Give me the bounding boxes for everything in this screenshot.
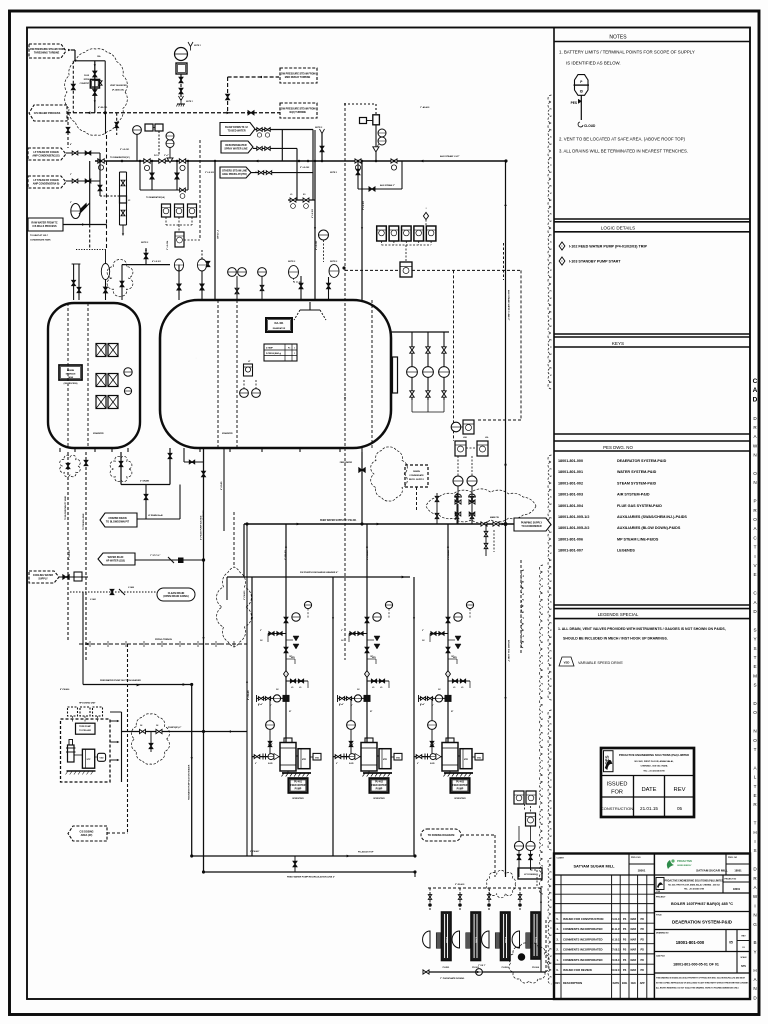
down arrows on vessel feeds bbox=[314, 227, 316, 230]
main steam header y158 bbox=[95, 160, 506, 162]
svg-text:CLIENT: CLIENT bbox=[557, 858, 565, 860]
flag lp steam med reboiler 2 bbox=[280, 103, 317, 118]
LI boxes pair bbox=[455, 441, 466, 456]
svg-text:18001-801-004: 18001-801-004 bbox=[558, 504, 584, 508]
svg-text:DOSING: DOSING bbox=[445, 937, 447, 944]
svg-text:30.11.15: 30.11.15 bbox=[611, 928, 621, 931]
svg-text:B: B bbox=[753, 940, 756, 945]
PRV side valve bbox=[95, 79, 101, 81]
svg-text:N: N bbox=[753, 913, 756, 918]
clean drain dotted line bbox=[70, 591, 157, 593]
svg-text:MAR: MAR bbox=[630, 928, 636, 931]
svg-text:TO DEAERATOR(1A): TO DEAERATOR(1A) bbox=[146, 196, 165, 199]
svg-text:PUMP: PUMP bbox=[376, 789, 383, 791]
pump train PU-402 suction riser bbox=[332, 577, 334, 856]
svg-text:COMMENTS INCORPORATED: COMMENTS INCORPORATED bbox=[563, 927, 603, 931]
svg-text:3"-LS-105: 3"-LS-105 bbox=[205, 172, 214, 174]
title block right rows bbox=[654, 874, 750, 876]
svg-text:TITLE: TITLE bbox=[656, 915, 662, 917]
pump PU-403 motor bbox=[458, 755, 460, 757]
svg-text:18001: 18001 bbox=[734, 869, 742, 873]
svg-text:HIGH PRESS AT(2TO): HIGH PRESS AT(2TO) bbox=[222, 173, 247, 176]
stadium clean drain bbox=[157, 588, 195, 601]
mid horizontal y264 bbox=[122, 264, 170, 266]
dosing unit 4 tank bbox=[531, 912, 541, 959]
svg-text:PU-402: PU-402 bbox=[375, 781, 384, 784]
svg-text:RECR. SUPPLY: RECR. SUPPLY bbox=[409, 479, 425, 481]
svg-text:PES DWG. NO: PES DWG. NO bbox=[603, 445, 633, 450]
dashed interlock across to LIC bbox=[412, 269, 521, 271]
LS square below bbox=[178, 225, 180, 232]
svg-text:HP DOSING UNIT: HP DOSING UNIT bbox=[79, 703, 96, 705]
dosing unit feed drops bbox=[429, 888, 431, 910]
dashed riser x121 from flag2 bbox=[65, 112, 67, 120]
vertical x68 blowdown dashed bbox=[67, 452, 69, 640]
dosing unit 1 tank bbox=[442, 912, 452, 961]
pump train PU-403 pump inlet line bbox=[414, 756, 442, 758]
logic interlock I-102 bbox=[559, 242, 565, 250]
main discharge header y524 bbox=[244, 523, 514, 525]
second bottom header y872 bbox=[204, 871, 416, 873]
vessel left internal dashed lines bbox=[67, 303, 69, 448]
svg-text:REV: REV bbox=[674, 787, 686, 793]
svg-text:I: I bbox=[754, 839, 755, 844]
keys header box bbox=[554, 333, 750, 335]
svg-text:2": 2" bbox=[260, 630, 262, 632]
svg-text:SATYAM SUGAR MILL: SATYAM SUGAR MILL bbox=[573, 864, 615, 869]
pump PU-401 base plate bbox=[282, 772, 311, 774]
svg-text:18001-801-007: 18001-801-007 bbox=[558, 549, 583, 553]
svg-text:PU-504: PU-504 bbox=[532, 966, 540, 969]
svg-text:V-1400: V-1400 bbox=[128, 586, 134, 589]
svg-text:GREEN ENERGY: GREEN ENERGY bbox=[677, 865, 692, 867]
svg-text:TANK: TANK bbox=[68, 376, 74, 379]
svg-text:TO ECONOMIZER: TO ECONOMIZER bbox=[521, 525, 541, 528]
vessel left demin storage tank bbox=[48, 303, 140, 448]
svg-text:BOILER FILL LINE 2": BOILER FILL LINE 2" bbox=[507, 640, 509, 662]
svg-text:STEAM SYSTEM-P&ID: STEAM SYSTEM-P&ID bbox=[617, 481, 656, 485]
svg-text:6"-FW-400: 6"-FW-400 bbox=[243, 591, 246, 600]
pump PU-401 vsd tag bbox=[310, 756, 313, 758]
dosing unit 1 pump bbox=[423, 931, 430, 948]
LIC square and circle bbox=[451, 422, 461, 432]
svg-text:2"x1": 2"x1" bbox=[164, 155, 169, 157]
svg-text:SHOULD BE INCLUDED IN MECH / I: SHOULD BE INCLUDED IN MECH / INST HOOK U… bbox=[563, 637, 668, 641]
svg-text:T: T bbox=[754, 821, 757, 826]
svg-text:MTR: MTR bbox=[464, 759, 469, 761]
transfer pump label box bbox=[76, 723, 96, 734]
svg-text:16.10.15: 16.10.15 bbox=[611, 938, 621, 941]
three square instruments row bbox=[162, 204, 171, 217]
svg-text:1. ALL DRAIN, VENT VALVES PROV: 1. ALL DRAIN, VENT VALVES PROVIDED WITH … bbox=[558, 627, 726, 631]
svg-text:W: W bbox=[753, 894, 758, 899]
left vertical x203 DA suction bbox=[203, 448, 205, 872]
vertical feed x315 to vessel bbox=[314, 161, 316, 300]
arrowheads on main headers bbox=[255, 160, 258, 163]
svg-text:REV: REV bbox=[555, 983, 560, 985]
pump building vsd bbox=[95, 756, 98, 758]
dark valve on dashed header bbox=[248, 111, 254, 115]
transfer line drop valve bbox=[150, 732, 152, 753]
ellipse pump symbol left bbox=[71, 204, 81, 219]
svg-text:FEED WATER: FEED WATER bbox=[340, 461, 353, 464]
svg-text:NO.18/2, FIRST FLOOR, ANNA SAL: NO.18/2, FIRST FLOOR, ANNA SALAI, CHENNA… bbox=[668, 884, 719, 887]
LV instruments pair bbox=[174, 259, 183, 271]
svg-text:W 1/2": W 1/2" bbox=[154, 155, 160, 157]
vent line with note2 bbox=[321, 133, 323, 161]
svg-text:18001-801-003: 18001-801-003 bbox=[558, 493, 583, 497]
svg-text:2"-LS-101: 2"-LS-101 bbox=[120, 149, 130, 151]
svg-text:DA-401: DA-401 bbox=[275, 321, 284, 325]
cooling water valve bbox=[59, 576, 88, 578]
pump PU-402 vsd tag bbox=[391, 756, 394, 758]
svg-text:PU-501: PU-501 bbox=[443, 967, 451, 969]
svg-text:6"-FW-403: 6"-FW-403 bbox=[366, 549, 369, 560]
svg-text:T: T bbox=[754, 784, 757, 789]
pump train PU-402 left branch bbox=[349, 633, 367, 635]
pump building base bbox=[67, 770, 96, 772]
flag to drain collection bbox=[100, 513, 137, 527]
svg-text:BOILER 160TPH/87 BAR(G) 485 °C: BOILER 160TPH/87 BAR(G) 485 °C bbox=[671, 902, 733, 906]
svg-text:PS: PS bbox=[623, 918, 627, 921]
svg-text:V-1401: V-1401 bbox=[90, 598, 96, 601]
svg-text:NOTE 1: NOTE 1 bbox=[194, 45, 201, 47]
svg-text:DOSING: DOSING bbox=[504, 937, 506, 944]
step from blowdown flag B bbox=[253, 147, 297, 149]
svg-text:T: T bbox=[754, 655, 757, 660]
svg-text:1: 1 bbox=[294, 348, 295, 350]
vertical x106 dashed bbox=[106, 135, 108, 225]
flag lp steam cogen 2 bbox=[28, 176, 66, 188]
pump train PU-403 strainer warmup line bbox=[419, 697, 449, 699]
dosing dark junction bbox=[518, 954, 524, 960]
svg-text:TO HEAT AT 105 C: TO HEAT AT 105 C bbox=[30, 234, 49, 237]
stubs below header bbox=[485, 524, 487, 556]
vessel DA-401 internal circles bbox=[240, 389, 249, 398]
svg-text:IS IDENTIFIED AS BELOW.: IS IDENTIFIED AS BELOW. bbox=[566, 61, 621, 66]
issued-for table columns bbox=[633, 776, 635, 818]
svg-text:1" ST 2"x1": 1" ST 2"x1" bbox=[150, 555, 160, 557]
svg-text:MAIN FW: MAIN FW bbox=[490, 516, 499, 519]
pump PU-402 body bbox=[361, 743, 377, 772]
svg-text:4"-LS-103: 4"-LS-103 bbox=[315, 240, 318, 250]
svg-text:NOTE 2: NOTE 2 bbox=[315, 127, 323, 129]
line y577 collector bbox=[227, 576, 410, 578]
svg-text:W: W bbox=[753, 443, 758, 448]
svg-text:PES: PES bbox=[605, 755, 610, 764]
svg-text:DOSING: DOSING bbox=[475, 937, 477, 944]
vertical x86 dashed bbox=[85, 452, 87, 660]
header corner at x244 bbox=[243, 524, 245, 577]
line from others steam flag bbox=[251, 172, 313, 174]
pump train PU-403 left branch bbox=[430, 633, 448, 635]
svg-text:PES: PES bbox=[571, 101, 577, 105]
flag to dosing diagram bbox=[421, 829, 461, 841]
svg-text:S: S bbox=[753, 646, 756, 651]
svg-text:8"x6": 8"x6" bbox=[420, 704, 425, 706]
svg-text:4"-ES-101: 4"-ES-101 bbox=[98, 106, 108, 109]
svg-text:VSD: VSD bbox=[315, 757, 320, 759]
pump train PU-401 discharge valves top bbox=[284, 617, 288, 623]
svg-text:18001-801-005-2/2: 18001-801-005-2/2 bbox=[558, 526, 589, 530]
svg-text:18001: 18001 bbox=[733, 887, 741, 891]
svg-text:E: E bbox=[753, 793, 756, 798]
cloud top header bbox=[74, 60, 105, 62]
svg-text:21.01.15: 21.01.15 bbox=[611, 918, 621, 921]
squares row x379-433 bbox=[377, 226, 387, 241]
svg-text:TEL: +91 44 2345 6789: TEL: +91 44 2345 6789 bbox=[684, 888, 704, 891]
svg-text:DPRS: DPRS bbox=[84, 79, 90, 81]
svg-text:VSD: VSD bbox=[564, 661, 570, 665]
flag drain 2 bbox=[98, 553, 135, 565]
pump building vertical pump bbox=[68, 745, 75, 762]
legends VSD symbol bbox=[559, 657, 574, 666]
svg-text:H: H bbox=[753, 830, 756, 835]
svg-text:FEEDWATER PUMP SUCTION HEADER: FEEDWATER PUMP SUCTION HEADER bbox=[188, 764, 191, 800]
svg-text:PUMP: PUMP bbox=[295, 789, 302, 791]
vessel top group B bbox=[329, 265, 339, 278]
svg-text:COMMENTS INCORPORATED: COMMENTS INCORPORATED bbox=[563, 958, 603, 962]
svg-text:AUXILIARIES (SWAS/CHEM.INJ.)-P: AUXILIARIES (SWAS/CHEM.INJ.)-P&IDS bbox=[617, 515, 687, 519]
flag others steam turbine bbox=[220, 167, 251, 178]
extra bottom connection lines bbox=[414, 835, 416, 856]
cloud right leg bbox=[104, 61, 106, 113]
pump train PU-403 discharge valves top bbox=[446, 617, 450, 623]
svg-text:05: 05 bbox=[729, 941, 733, 945]
pump train PU-401 left branch bbox=[268, 633, 286, 635]
pump PU-402 name box bbox=[370, 778, 389, 793]
raw water line from flag bbox=[63, 224, 107, 226]
flag cooling water supply bbox=[29, 571, 59, 583]
svg-text:3"-LS-104: 3"-LS-104 bbox=[166, 240, 169, 250]
svg-text:1: 1 bbox=[294, 353, 295, 355]
flag to dosing area bbox=[68, 826, 107, 841]
svg-text:PROACTIVE ENGINEERING SOLUTION: PROACTIVE ENGINEERING SOLUTIONS (P&I) LI… bbox=[665, 880, 724, 883]
svg-text:ALL RIGHTS RESERVED. DO NOT SC: ALL RIGHTS RESERVED. DO NOT SCALE THIS D… bbox=[656, 987, 740, 990]
svg-text:4"-LS-102: 4"-LS-102 bbox=[311, 209, 314, 218]
dashed line from logic box to pump trains bbox=[344, 103, 346, 268]
pump train PU-401 suction riser bbox=[251, 577, 253, 856]
LV circles below bbox=[453, 476, 463, 486]
svg-text:PROJ. NO: PROJ. NO bbox=[728, 857, 738, 859]
svg-text:LEGENDS: LEGENDS bbox=[617, 549, 635, 553]
svg-text:1" DS 1": 1" DS 1" bbox=[478, 965, 486, 967]
svg-text:C/S DEAER PROCESS: C/S DEAER PROCESS bbox=[34, 112, 61, 115]
pump PU-403 name box bbox=[451, 778, 470, 793]
svg-text:4#(2) TURBINE: 4#(2) TURBINE bbox=[289, 111, 306, 114]
pump train PU-403 right branch recirc bbox=[448, 680, 470, 682]
svg-text:DEAERATOR: DEAERATOR bbox=[273, 327, 286, 330]
valves on header before flag bbox=[481, 522, 487, 526]
svg-text:SATYAM SUGAR MILL: SATYAM SUGAR MILL bbox=[696, 869, 728, 873]
pump train PU-403 discharge column bbox=[447, 524, 449, 742]
svg-text:CAD FILE: CAD FILE bbox=[656, 955, 665, 958]
aux control valve body bbox=[373, 147, 379, 152]
PRV station in cloud bbox=[94, 61, 96, 113]
svg-text:PD: PD bbox=[640, 918, 644, 921]
svg-text:L: L bbox=[754, 775, 757, 780]
svg-text:AIR SYSTEM-P&ID: AIR SYSTEM-P&ID bbox=[617, 493, 650, 497]
vessel DA-401 spray tee bbox=[300, 309, 320, 311]
dashed bracket top bbox=[344, 103, 376, 105]
svg-text:COMMENTS INCORPORATED: COMMENTS INCORPORATED bbox=[563, 948, 603, 952]
svg-text:18001-801-000: 18001-801-000 bbox=[558, 459, 583, 463]
pump train PU-403 NRV stack bbox=[455, 636, 461, 649]
pump train PU-402 discharge column bbox=[366, 524, 368, 742]
svg-text:3": 3" bbox=[70, 202, 72, 204]
svg-text:MP STEAM LINE-P&IDS: MP STEAM LINE-P&IDS bbox=[617, 537, 659, 541]
svg-text:TO DOSING DIAGRAM: TO DOSING DIAGRAM bbox=[428, 834, 455, 837]
svg-text:TO BLOWDOWN PIT: TO BLOWDOWN PIT bbox=[106, 520, 130, 523]
PC circle pair aux bbox=[378, 129, 386, 137]
instrument stack valves bbox=[517, 854, 521, 859]
svg-text:TO DEAERATOR(1C): TO DEAERATOR(1C) bbox=[110, 156, 130, 159]
svg-text:MED REBLR TURBINE: MED REBLR TURBINE bbox=[285, 76, 311, 79]
svg-text:COMMENTS INCORPORATED: COMMENTS INCORPORATED bbox=[563, 937, 603, 941]
vessel left instrument circles bbox=[124, 368, 132, 376]
tie valve between headers bbox=[294, 856, 296, 872]
revision table grid bbox=[560, 875, 562, 999]
svg-text:TEL: +91 44 2345 6789: TEL: +91 44 2345 6789 bbox=[643, 770, 665, 773]
svg-text:V2: V2 bbox=[128, 200, 130, 202]
svg-text:Y: Y bbox=[753, 637, 756, 642]
svg-text:(ON PROCESS): (ON PROCESS) bbox=[64, 383, 78, 385]
header manifold bowties bbox=[144, 159, 150, 163]
discharge header control valves bbox=[435, 496, 439, 501]
flag blow down tank 2 bbox=[221, 141, 253, 153]
svg-text:STANDPIPE: STANDPIPE bbox=[222, 432, 233, 435]
svg-text:PD: PD bbox=[640, 928, 644, 931]
svg-text:PROJECT: PROJECT bbox=[656, 897, 666, 899]
pipe dashed header y112 bbox=[67, 112, 280, 114]
vessel drain x170 bbox=[169, 448, 171, 485]
svg-text:PU-401: PU-401 bbox=[294, 781, 303, 784]
svg-text:H: H bbox=[753, 968, 756, 973]
svg-text:NOTE 2: NOTE 2 bbox=[288, 261, 296, 263]
svg-text:5.: 5. bbox=[556, 917, 559, 921]
svg-text:O: O bbox=[753, 738, 757, 743]
svg-text:SPRAY WATER LINE: SPRAY WATER LINE bbox=[224, 147, 248, 150]
level gauge on vessel right bbox=[393, 357, 398, 393]
svg-text:C: C bbox=[753, 378, 758, 385]
svg-text:2"-FW-407: 2"-FW-407 bbox=[250, 850, 259, 853]
svg-text:2"-CW-401: 2"-CW-401 bbox=[68, 549, 71, 560]
pump train PU-403 suction riser bbox=[413, 577, 415, 856]
dosing unit 2 pump bbox=[452, 931, 459, 948]
left riser from flags x100 bbox=[99, 153, 101, 161]
svg-text:PUMP2(2F)-2": PUMP2(2F)-2" bbox=[168, 727, 181, 729]
dashed box around aux manifold bbox=[195, 357, 197, 359]
svg-text:NOTE 2: NOTE 2 bbox=[330, 261, 338, 263]
svg-text:PROJ. NO: PROJ. NO bbox=[631, 857, 641, 859]
svg-text:AUX.STEAM 1-1/2": AUX.STEAM 1-1/2" bbox=[440, 155, 460, 158]
pump PU-403 vsd tag bbox=[472, 756, 475, 758]
svg-text:FLUE GAS SYSTEM-P&ID: FLUE GAS SYSTEM-P&ID bbox=[617, 504, 662, 508]
svg-text:PROJECT NO: PROJECT NO bbox=[725, 879, 737, 881]
extra ticks on piping trench bbox=[89, 641, 91, 647]
svg-text:2"-LS-103: 2"-LS-103 bbox=[363, 201, 365, 210]
extra valves on left flags lines bbox=[66, 127, 70, 132]
svg-text:PROACTIVE ENGINEERING SOLUTION: PROACTIVE ENGINEERING SOLUTIONS (P&I) LI… bbox=[619, 753, 689, 757]
svg-text:2"x3": 2"x3" bbox=[255, 172, 260, 174]
pump train PU-403 logic diamond bbox=[446, 671, 451, 678]
svg-text:Y: Y bbox=[753, 949, 756, 954]
svg-text:CONDENSATE: CONDENSATE bbox=[409, 474, 424, 477]
svg-text:AREA (2F): AREA (2F) bbox=[81, 834, 93, 837]
svg-text:I-102 FEED WATER PUMP (P4-01/: I-102 FEED WATER PUMP (P4-01/02/03) TRIP bbox=[569, 245, 647, 249]
dosing unit 2 tank bbox=[471, 912, 481, 961]
svg-text:1.: 1. bbox=[556, 958, 559, 962]
dosing unit 4 pump bbox=[512, 931, 519, 948]
short dashed parallel x503 bbox=[503, 243, 505, 280]
flag pumping supply to economizer bbox=[514, 518, 551, 531]
header right of vessel bbox=[391, 331, 449, 333]
svg-text:DOSING: DOSING bbox=[535, 937, 537, 944]
svg-text:AUXILIARIES (BLOW DOWN)-P&IDS: AUXILIARIES (BLOW DOWN)-P&IDS bbox=[617, 526, 681, 530]
pump train PU-403 small tee tags bbox=[448, 658, 457, 660]
vessel top group A bbox=[289, 266, 299, 279]
bypass line to vessel y200 bbox=[288, 199, 315, 201]
svg-text:LOGIC DETAILS: LOGIC DETAILS bbox=[601, 226, 635, 231]
right panel divider bbox=[553, 28, 555, 1000]
vertical dashed x234 bbox=[233, 512, 235, 567]
pump train PU-401 discharge column bbox=[285, 524, 287, 742]
extra circle pair above vessel x262 bbox=[258, 268, 267, 277]
svg-text:4"-DR-401: 4"-DR-401 bbox=[202, 509, 205, 520]
instrument stack mid box bbox=[526, 813, 536, 826]
recirculation bottom header bbox=[192, 855, 415, 857]
pump building roof boxes bbox=[68, 707, 78, 716]
svg-text:24.06.15: 24.06.15 bbox=[611, 959, 621, 962]
svg-text:FEED WATER: FEED WATER bbox=[372, 784, 387, 787]
pump building dashed enclosure bbox=[61, 719, 111, 782]
svg-text:NOTE 3: NOTE 3 bbox=[330, 172, 337, 174]
vertical main x506 bbox=[505, 161, 507, 877]
svg-text:(OPEN DRAIN GOING): (OPEN DRAIN GOING) bbox=[163, 595, 188, 598]
svg-text:3. ALL DRAINS WILL BE TERMINAT: 3. ALL DRAINS WILL BE TERMINATED IN NEAR… bbox=[559, 149, 688, 154]
dashed interlock drop to LSH bbox=[453, 270, 455, 441]
HV instrument group bbox=[133, 126, 142, 135]
svg-text:TO TRENCH 40NB: TO TRENCH 40NB bbox=[82, 513, 85, 530]
svg-text:4.: 4. bbox=[556, 927, 559, 931]
svg-text:AUX STEAM SUPPLY LINE 2": AUX STEAM SUPPLY LINE 2" bbox=[507, 290, 510, 320]
dosing unit 3 pump bbox=[482, 931, 489, 948]
svg-text:PS: PS bbox=[623, 969, 627, 972]
pump train PU-402 discharge valves top bbox=[365, 617, 369, 623]
svg-text:PS: PS bbox=[623, 959, 627, 962]
svg-text:LSH: LSH bbox=[463, 437, 467, 439]
svg-text:MTR: MTR bbox=[383, 759, 388, 761]
svg-text:VSD: VSD bbox=[100, 758, 105, 760]
inter vessel drain line bbox=[121, 484, 170, 486]
svg-text:3": 3" bbox=[70, 174, 72, 176]
relief vent outlet bbox=[179, 96, 184, 104]
pump building outlet arrows bbox=[110, 720, 118, 722]
svg-text:S: S bbox=[753, 683, 756, 688]
svg-text:6": 6" bbox=[255, 763, 257, 765]
svg-text:OPER/STDBY: OPER/STDBY bbox=[454, 798, 466, 800]
pump building right vertical bbox=[121, 712, 123, 782]
svg-text:8"-FW-406: 8"-FW-406 bbox=[60, 688, 69, 691]
svg-text:SUPPLY: SUPPLY bbox=[38, 577, 48, 580]
svg-text:CONSTRUCTION: CONSTRUCTION bbox=[601, 806, 633, 811]
svg-text:STORAGE: STORAGE bbox=[66, 373, 77, 376]
svg-text:0.: 0. bbox=[556, 968, 559, 972]
svg-text:18001-801-000: 18001-801-000 bbox=[676, 940, 705, 945]
pump train PU-402 pump inlet line bbox=[333, 756, 361, 758]
right vessel instrument columns bbox=[411, 332, 413, 400]
flag dosing connector bbox=[107, 832, 128, 834]
